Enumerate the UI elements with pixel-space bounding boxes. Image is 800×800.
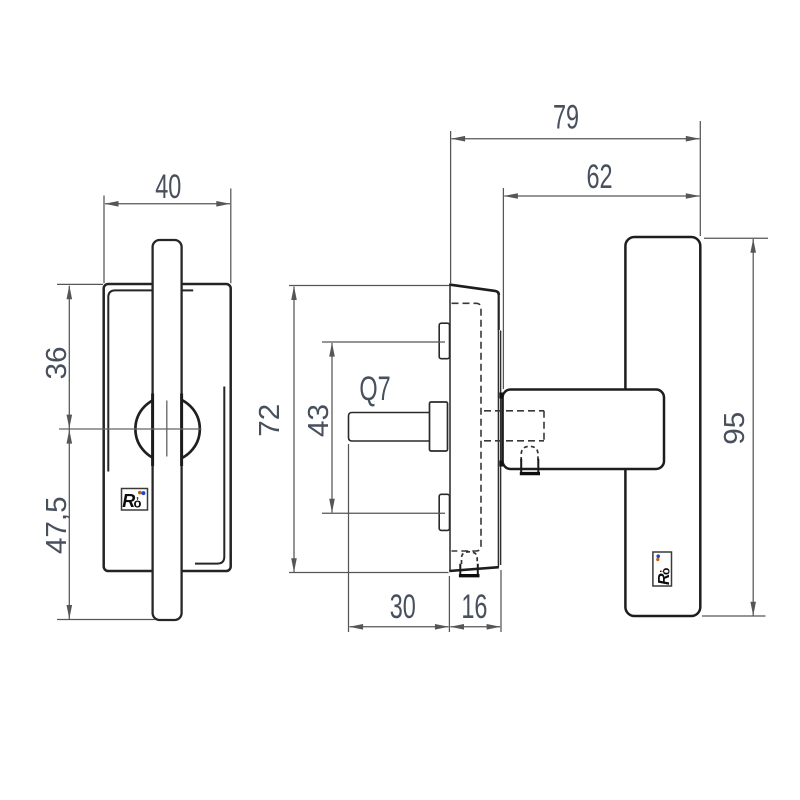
front view horizontal centerline [59, 428, 202, 430]
side view neck junction lower [499, 461, 503, 467]
side view lower screw boss [439, 494, 449, 530]
side view spindle [349, 413, 430, 442]
side view plate top edge [449, 285, 499, 295]
svg-text:ὀ: ὀ [134, 496, 142, 511]
dimension 72 extension lines [289, 286, 449, 573]
label Q7 [359, 370, 390, 409]
dimension 36/47,5 line [68, 286, 70, 619]
svg-text:40: 40 [155, 167, 181, 206]
svg-text:47,5: 47,5 [41, 496, 73, 554]
dimension 43 line [331, 343, 333, 513]
svg-text:30: 30 [390, 587, 416, 626]
dimension 40 line [105, 203, 230, 205]
dimension 72 line [293, 287, 295, 573]
side view neck spring clip dashed arch [521, 446, 538, 461]
dimension 95 extension lines [702, 238, 768, 616]
svg-text:36: 36 [42, 347, 74, 380]
side view plate bottom edge [449, 567, 499, 571]
svg-text:62: 62 [586, 158, 612, 197]
side view plate spring clip dashed arch [462, 552, 478, 564]
side view neck [503, 390, 664, 470]
side view plate right face lower [497, 329, 499, 567]
side view plate right face upper heavy [498, 293, 500, 330]
svg-text:16: 16 [461, 587, 487, 626]
dimension 47,5 text [41, 496, 73, 554]
svg-text:Q7: Q7 [359, 370, 390, 409]
dimension 43 text [303, 404, 335, 437]
dimension 72 arrows [291, 286, 297, 300]
dimension 40 extension lines [104, 189, 231, 284]
svg-text:72: 72 [254, 404, 286, 437]
svg-text:79: 79 [553, 98, 579, 137]
dimension 16 arrows [450, 624, 464, 630]
side view plate inner face edge line [500, 331, 502, 566]
svg-text:43: 43 [303, 404, 335, 437]
front view logo plate [122, 489, 148, 512]
svg-text:95: 95 [719, 412, 751, 445]
dimension 30 / 16 extension lines [349, 444, 502, 632]
front view rosette circle [135, 397, 199, 461]
dimension 62 line [504, 195, 699, 197]
dimension 95 text [719, 412, 751, 445]
front view backplate inner contour stub [182, 289, 193, 291]
side view lever bar [625, 237, 700, 616]
front view vertical centerline [166, 401, 168, 457]
dimension 47,5 arrows [67, 430, 73, 444]
dimension 40 arrows [105, 201, 119, 207]
dimension 62 arrows [504, 193, 518, 199]
front view backplate inner contour bottom-right [195, 387, 224, 564]
side view upper screw boss [439, 323, 449, 359]
dimension 79 arrows [451, 136, 465, 142]
dimension 95 arrows [750, 239, 756, 253]
dimension 30 arrows [349, 624, 363, 630]
dimension 40 text [155, 167, 181, 206]
svg-text:ὀ: ὀ [659, 568, 673, 575]
side view plate tab [460, 564, 478, 575]
dimension 30 line [350, 626, 449, 628]
dimension 16 line [450, 626, 500, 628]
front view lever bar [153, 240, 182, 620]
side view neck tab [521, 459, 538, 473]
dimension 79 extension lines [451, 121, 701, 284]
dimension 62 extension line [502, 188, 504, 389]
front view backplate outer outline [104, 284, 231, 571]
side view hidden spindle dashes [484, 411, 544, 441]
front view backplate inner contour top-left [108, 290, 152, 471]
dimension 62 text [586, 158, 612, 197]
dimension 43 extension lines [322, 342, 445, 513]
side view logo plate rotated [653, 552, 673, 586]
dimension 36 / 47,5 extension lines [57, 284, 155, 619]
dimension 79 line [452, 138, 700, 140]
side view neck junction upper [499, 393, 503, 399]
side view plate left face [449, 284, 451, 571]
dimension 43 arrows [329, 343, 335, 357]
side view hidden inner plate dashed outline [452, 303, 482, 551]
dimension 95 line [752, 239, 754, 616]
dimension 72 text [254, 404, 286, 437]
side view spindle collar [430, 402, 448, 451]
dimension 36 arrows [67, 285, 73, 299]
dimension 79 text [553, 98, 579, 137]
dimension 16 text [461, 587, 487, 626]
front view lever bar heavy edges over rosette [151, 394, 154, 467]
dimension 30 text [390, 587, 416, 626]
dimension 36 text [42, 347, 74, 380]
